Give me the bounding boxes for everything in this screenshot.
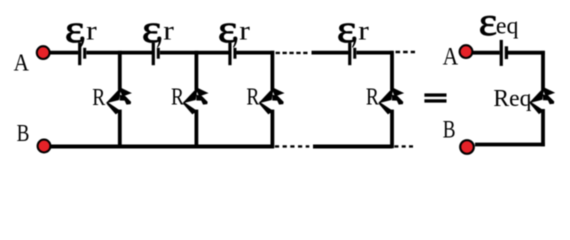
svg-text:r: r <box>358 15 369 45</box>
svg-text:ε: ε <box>479 0 498 44</box>
wire battery eq to right corner <box>508 51 545 55</box>
wire equivalent right vertical upper <box>541 51 545 90</box>
svg-text:B: B <box>17 121 30 147</box>
terminal dot A left <box>37 46 50 59</box>
wire top right solid segment to battery4 <box>312 51 349 55</box>
resistor R2 <box>184 88 207 114</box>
resistor R1 <box>107 88 130 114</box>
wire vertical branch 1 lower <box>118 110 122 149</box>
dashed continuation top right <box>396 51 416 53</box>
wire battery3 to corner node 3 <box>236 51 274 55</box>
wire battery1 to battery2 <box>86 51 152 55</box>
battery cell 2 <box>152 43 160 66</box>
svg-text:R: R <box>246 85 259 111</box>
svg-text:A: A <box>14 50 30 76</box>
equals sign <box>424 93 446 102</box>
battery cell 1 <box>78 43 86 66</box>
wire battery2 to battery3 <box>160 51 229 55</box>
resistor R4 <box>380 88 403 114</box>
resistor R3 <box>260 88 283 114</box>
wire vertical branch 2 upper <box>194 51 198 90</box>
svg-text:A: A <box>443 44 459 71</box>
svg-text:r: r <box>86 15 97 45</box>
battery cell equivalent <box>500 40 508 66</box>
svg-text:eq: eq <box>496 13 519 39</box>
wire vertical branch 3 upper <box>270 51 274 90</box>
svg-text:B: B <box>443 117 456 144</box>
svg-text:Req: Req <box>493 86 531 112</box>
wire equivalent right vertical lower <box>541 109 545 146</box>
svg-text:r: r <box>163 15 174 45</box>
wire vertical branch 1 upper <box>118 51 122 90</box>
wire vertical branch 2 lower <box>194 110 198 149</box>
battery cell 3 <box>228 43 236 66</box>
wire bottom B to corner node 3 <box>51 145 274 149</box>
svg-text:r: r <box>239 15 250 45</box>
wire vertical branch 4 upper <box>390 51 394 90</box>
wire vertical branch 4 lower <box>390 110 394 149</box>
terminal dot B left <box>38 140 51 153</box>
wire bottom right solid segment <box>313 145 392 149</box>
wire equivalent bottom B to right corner <box>475 143 545 147</box>
dashed continuation bottom right <box>394 145 415 147</box>
terminal dot A right <box>460 45 473 58</box>
svg-text:R: R <box>366 85 379 111</box>
wire battery4 to corner node 4 <box>356 51 393 55</box>
terminal dot B right <box>460 140 474 154</box>
resistor Req <box>531 87 554 113</box>
battery cell 4 <box>348 43 356 66</box>
dashed continuation top middle <box>275 52 415 146</box>
wire top segment A to battery1 <box>50 51 79 55</box>
dashed continuation bottom middle <box>275 145 309 147</box>
svg-text:R: R <box>92 85 105 111</box>
svg-text:R: R <box>171 85 184 111</box>
wire vertical branch 3 lower <box>270 110 274 149</box>
wire equivalent top A to battery eq <box>473 51 500 55</box>
